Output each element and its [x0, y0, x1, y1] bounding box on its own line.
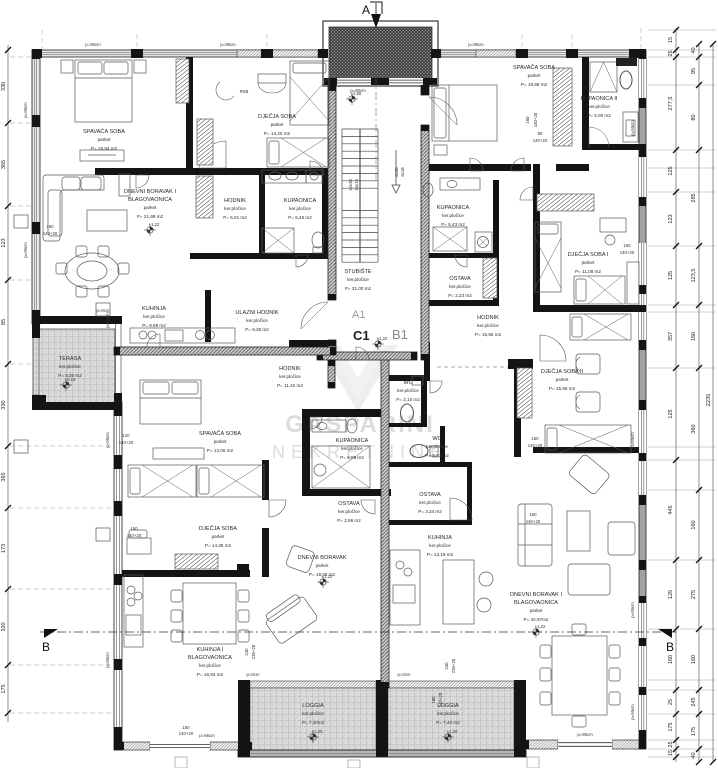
svg-text:160: 160: [130, 526, 138, 531]
coffee table A1: [87, 210, 127, 231]
svg-text:DNEVNI BORAVAK I: DNEVNI BORAVAK I: [124, 189, 176, 195]
door A1 spavaca: [136, 175, 149, 188]
svg-text:277,5: 277,5: [668, 97, 674, 111]
wall: B1 wc top wall: [389, 375, 430, 381]
svg-text:HODNIK: HODNIK: [279, 366, 301, 372]
svg-text:p=80cm: p=80cm: [350, 88, 366, 93]
svg-text:parket: parket: [144, 205, 157, 210]
svg-text:TERASA: TERASA: [59, 356, 82, 362]
svg-text:175: 175: [668, 722, 674, 731]
wall: terrace bottom wall: [33, 402, 122, 410]
bottom wall C1 lintel hatch right: [210, 742, 242, 750]
svg-text:BLAGOVAONICA: BLAGOVAONICA: [128, 197, 172, 203]
svg-text:16x18: 16x18: [354, 179, 359, 191]
svg-text:C1: C1: [353, 328, 370, 343]
shelf djecja I: [627, 262, 639, 304]
loggia 2 hatch: [388, 688, 514, 750]
hatched wall: C1 hodnik left wall upper: [328, 360, 335, 388]
wall: C1 djecja corner block: [237, 564, 249, 575]
svg-text:235+20: 235+20: [451, 658, 456, 673]
wall: C1 kupaonica left wall: [302, 409, 310, 496]
svg-text:ker.pločice: ker.pločice: [279, 374, 301, 379]
svg-text:P= 11,08 m2: P= 11,08 m2: [575, 269, 601, 274]
dimension line left side: [7, 45, 9, 722]
top wall lintel hatch segment: [237, 50, 318, 57]
svg-text:320: 320: [1, 622, 7, 631]
svg-text:330: 330: [1, 82, 7, 91]
sofa C1 rotated: [262, 591, 319, 644]
room labels: [58, 64, 618, 725]
svg-text:OSTAVA: OSTAVA: [449, 276, 471, 282]
svg-text:175: 175: [1, 684, 7, 693]
wall: wall djecja I - djecja II: [533, 305, 646, 312]
svg-text:235+20: 235+20: [251, 644, 256, 659]
svg-text:330: 330: [1, 400, 7, 409]
wall: loggia left wall: [238, 680, 250, 757]
kitchen B1 counter: [390, 550, 420, 625]
kitchen counter A1: [130, 328, 235, 343]
wall: C1 spavaca right wall: [262, 460, 269, 500]
chair A1 djecja: [216, 82, 234, 100]
wall: wall spavaca B1 - kupaonica II: [582, 57, 589, 150]
svg-text:B1: B1: [392, 327, 408, 342]
wall: bottom wall C1 corner block: [114, 742, 124, 750]
outer top wall glazing band left span: [32, 50, 324, 57]
svg-text:P= 3,34 m2: P= 3,34 m2: [418, 509, 442, 514]
top wall lintel hatch right: [476, 50, 516, 57]
door B1 ostava: [450, 498, 472, 520]
wall: wall below hodnik-kupaonica A1: [190, 253, 330, 259]
outer right wall base: [639, 50, 646, 749]
svg-text:19x30: 19x30: [348, 179, 353, 191]
washer kupII: [623, 112, 638, 142]
svg-text:p=95cm: p=95cm: [630, 602, 635, 618]
top wall piers: [32, 49, 646, 58]
sofa A1: [43, 175, 104, 241]
window vestibule left: [337, 78, 371, 85]
svg-text:B: B: [42, 640, 50, 654]
bottom wall B1 lintel hatch left: [527, 740, 558, 749]
svg-text:240: 240: [444, 662, 449, 670]
door B1 kupaonica: [455, 255, 467, 267]
door kupII: [589, 127, 609, 147]
svg-text:ker.pločice: ker.pločice: [429, 543, 451, 548]
wall: wall left of djecja II: [514, 366, 521, 457]
svg-text:P= 18,94 m2: P= 18,94 m2: [197, 672, 224, 677]
door C1 spavaca: [147, 334, 160, 347]
svg-text:160: 160: [691, 332, 697, 341]
svg-text:ker.pločice: ker.pločice: [426, 444, 448, 449]
svg-text:140+20: 140+20: [179, 731, 194, 736]
svg-text:ker.pločice: ker.pločice: [246, 318, 268, 323]
svg-text:parket: parket: [316, 563, 329, 568]
door A1 kupaonica: [296, 255, 308, 267]
svg-text:125: 125: [668, 409, 674, 418]
desk djecja I: [600, 218, 626, 232]
hatched wall: central divider wall C1-B1: [381, 352, 389, 688]
level markers: [144, 224, 156, 236]
svg-text:parket: parket: [214, 439, 227, 444]
outer left wall lower glazing band: [114, 402, 122, 750]
wall: B1 ostava top wall: [389, 462, 472, 467]
entrance canopy hatched roof: [323, 21, 438, 86]
wardrobe hatch A1 spavaca: [176, 59, 189, 103]
svg-text:LOGGIA: LOGGIA: [302, 703, 324, 709]
svg-text:25: 25: [668, 699, 674, 705]
wardrobe hatch C1 djecja: [175, 554, 218, 569]
svg-text:SPAVAČA SOBA: SPAVAČA SOBA: [513, 64, 555, 71]
single bed C1 spavaca a: [128, 465, 196, 497]
wall: B1 wc1 right wall: [421, 381, 427, 427]
svg-text:123: 123: [668, 214, 674, 223]
svg-text:KUHINJA: KUHINJA: [428, 535, 452, 541]
svg-text:80: 80: [691, 114, 697, 120]
cot C1 djecja: [127, 538, 151, 554]
right wall piers: [639, 50, 646, 749]
shower C1: [312, 446, 370, 488]
svg-text:P= 2,10 m2: P= 2,10 m2: [396, 397, 420, 402]
double bed A1 spavaca: [75, 60, 132, 122]
single bed C1 spavaca b: [197, 465, 264, 497]
svg-text:p=0cm: p=0cm: [246, 672, 259, 677]
kitchen island B1: [443, 560, 474, 624]
door C1 ostava lower: [361, 500, 375, 514]
watermark logo: [272, 345, 448, 462]
svg-text:p=0cm: p=0cm: [397, 672, 410, 677]
svg-text:P= 42,97m2: P= 42,97m2: [524, 617, 549, 622]
svg-text:BLAGOVAONICA: BLAGOVAONICA: [514, 600, 558, 606]
wall: loggia right wall: [514, 680, 526, 757]
terrace junction block: [114, 393, 122, 410]
hatched wall: stairwell right wall: [421, 125, 429, 360]
svg-text:HODNIK: HODNIK: [224, 198, 246, 204]
svg-text:+1,22: +1,22: [149, 222, 160, 227]
svg-text:A: A: [362, 3, 370, 17]
door arc B1 entry: [429, 97, 457, 125]
svg-text:85: 85: [1, 319, 7, 325]
svg-text:KUPAONICA: KUPAONICA: [336, 438, 369, 444]
washing machine A1: [306, 170, 322, 183]
door B1 hodnik: [511, 158, 524, 171]
nightstand: [434, 145, 447, 155]
wall: ulazni hodnik bottom wall piece: [289, 340, 336, 347]
svg-text:DJEČJA SOBA: DJEČJA SOBA: [199, 525, 237, 532]
svg-text:DJEČJA SOBA II: DJEČJA SOBA II: [541, 368, 584, 375]
svg-text:285: 285: [691, 193, 697, 202]
svg-text:ker.pločice: ker.pločice: [477, 323, 499, 328]
door arc A1 entry: [301, 302, 328, 329]
svg-text:360: 360: [691, 424, 697, 433]
svg-text:SPAVAĆA SOBA: SPAVAĆA SOBA: [83, 128, 125, 135]
window bottom C1 kuhinja: [150, 742, 210, 750]
chair a djecja II: [576, 354, 600, 374]
svg-text:parket: parket: [271, 122, 284, 127]
svg-text:p=95cm: p=95cm: [630, 120, 635, 136]
dimension lines right side: [648, 28, 716, 762]
svg-text:15: 15: [668, 37, 674, 43]
svg-text:KUHINJA I: KUHINJA I: [197, 647, 224, 653]
wall: C1 djecja right wall: [262, 528, 269, 577]
bed 2 djecja II: [570, 314, 631, 340]
svg-text:ker.pločice: ker.pločice: [442, 213, 464, 218]
door A1 dnevni: [310, 161, 324, 175]
terrace hatch: [33, 329, 115, 403]
wall: wall between spavaca and djecja A1: [186, 57, 193, 170]
svg-text:ker.pločice: ker.pločice: [437, 711, 459, 716]
dining table A1: [56, 246, 129, 297]
bench C1: [153, 448, 204, 459]
svg-text:ker.pločice: ker.pločice: [341, 446, 363, 451]
loggia 2 lintel: [388, 681, 514, 688]
toilet kupB1: [423, 183, 433, 197]
svg-text:160: 160: [525, 116, 530, 124]
svg-text:180: 180: [431, 696, 436, 704]
svg-text:ker.pločice: ker.pločice: [419, 500, 441, 505]
window bottom B1 dnevni: [558, 740, 612, 749]
svg-text:P= 2,96 m2: P= 2,96 m2: [337, 518, 361, 523]
wall: djecja II lower wall: [533, 447, 639, 453]
svg-text:p=95cm: p=95cm: [630, 432, 635, 448]
svg-text:p=95cm: p=95cm: [577, 732, 593, 737]
svg-text:160: 160: [691, 655, 697, 664]
svg-text:p=95cm: p=95cm: [105, 312, 110, 328]
svg-text:15: 15: [668, 750, 674, 756]
svg-text:ULAZNI HODNIK: ULAZNI HODNIK: [235, 310, 278, 316]
svg-text:+1,20: +1,20: [447, 729, 458, 734]
toilet kupII: [620, 71, 632, 89]
svg-text:P= 15,55 m2: P= 15,55 m2: [549, 386, 576, 391]
svg-text:140+20: 140+20: [533, 138, 548, 143]
svg-text:125: 125: [668, 271, 674, 280]
svg-text:365: 365: [1, 160, 7, 169]
wall: wall below spavaca B1 right part: [556, 164, 589, 171]
svg-text:160: 160: [46, 224, 54, 229]
svg-text:OSTAVA: OSTAVA: [338, 501, 360, 507]
nightstand: [134, 60, 146, 73]
wall: wall below spavaca B1: [421, 164, 531, 171]
left wall piers: [32, 50, 40, 324]
svg-text:parket: parket: [212, 534, 225, 539]
right wall glazing windows: [639, 59, 646, 730]
double bed C1 spavaca: [140, 380, 201, 424]
outer left wall glazing band: [32, 50, 40, 324]
svg-text:P= 7,40 m2: P= 7,40 m2: [436, 720, 460, 725]
svg-text:RSB: RSB: [240, 89, 249, 94]
double bed B1 spavaca: [432, 85, 497, 141]
desk A1 djecja: [258, 74, 286, 83]
stair arrow: [392, 150, 400, 193]
svg-text:140+20: 140+20: [533, 112, 538, 127]
svg-text:parket: parket: [530, 608, 543, 613]
wall: B1 wc left wall: [424, 342, 430, 377]
svg-text:173: 173: [1, 544, 7, 553]
svg-text:445: 445: [668, 505, 674, 514]
washer kupB1: [475, 232, 492, 252]
open boundary dashed: [437, 366, 508, 368]
tv rect A1: [119, 174, 130, 196]
svg-text:A1: A1: [352, 309, 365, 321]
svg-text:160: 160: [531, 436, 539, 441]
vanity C1: [312, 420, 346, 432]
svg-text:P= 11,42 m2: P= 11,42 m2: [277, 383, 303, 388]
vanity kupB1: [440, 178, 480, 190]
svg-text:80: 80: [538, 131, 543, 136]
svg-text:40: 40: [691, 47, 697, 53]
vanity kupII: [616, 58, 637, 66]
svg-text:+1,22: +1,22: [322, 574, 333, 579]
door C1 djecja: [269, 500, 286, 517]
svg-text:P= 5,00 m2: P= 5,00 m2: [587, 113, 611, 118]
wall: kupaonica A1 right wall: [322, 175, 328, 255]
wall: C1 kupaonica bottom wall: [302, 489, 391, 496]
svg-text:P= 5,01 m2: P= 5,01 m2: [223, 215, 247, 220]
svg-text:123,5: 123,5: [691, 269, 697, 283]
wall: C1 djecja bottom wall: [122, 570, 250, 577]
loggia 1 hatch: [250, 688, 376, 750]
wall: bottom wall B1 left block: [517, 740, 529, 749]
chair b djecja II: [576, 392, 600, 412]
svg-text:KUPAONICA: KUPAONICA: [284, 198, 317, 204]
hatched wall: wall A1-C1 divide: [114, 347, 336, 355]
svg-text:p=95cm: p=95cm: [220, 42, 236, 47]
svg-text:40: 40: [691, 752, 697, 758]
svg-text:KUPAONICA II: KUPAONICA II: [581, 96, 618, 102]
svg-text:p=95cm: p=95cm: [23, 102, 28, 118]
shower A1: [262, 228, 294, 253]
svg-text:ker.pločice: ker.pločice: [302, 711, 324, 716]
svg-text:365: 365: [1, 472, 7, 481]
svg-text:p=95cm: p=95cm: [105, 652, 110, 668]
door B1 spavaca: [470, 158, 483, 171]
door B1 djecja II: [540, 335, 566, 361]
svg-text:P= 18,84 m2: P= 18,84 m2: [91, 146, 118, 151]
dining table C1: [171, 583, 249, 644]
svg-text:25: 25: [668, 741, 674, 747]
svg-text:2235: 2235: [706, 394, 712, 406]
stairwell treads: [342, 129, 378, 262]
svg-text:140+20: 140+20: [43, 231, 58, 236]
svg-text:ker.pločice: ker.pločice: [224, 206, 246, 211]
bed 1 djecja I: [535, 222, 561, 292]
wall: wall below bedrooms A1: [95, 168, 330, 175]
window vestibule right: [389, 78, 423, 85]
bed 2 A1 djecja: [267, 138, 329, 167]
wall: ulazni hodnik left wall A1: [205, 290, 211, 342]
door B1 wc: [430, 381, 442, 393]
svg-text:P= 18,89 m2: P= 18,89 m2: [521, 82, 548, 87]
svg-text:140+20: 140+20: [119, 440, 134, 445]
svg-text:parket: parket: [98, 137, 111, 142]
svg-text:123: 123: [1, 238, 7, 247]
svg-text:125: 125: [668, 166, 674, 175]
svg-text:240: 240: [244, 648, 249, 656]
svg-text:8x30: 8x30: [394, 167, 399, 177]
svg-text:180: 180: [182, 725, 190, 730]
svg-text:160: 160: [668, 655, 674, 664]
svg-text:p=95cm: p=95cm: [468, 42, 484, 47]
wall: wall kupaonica-ostava B1 right: [493, 180, 499, 306]
hatched wall: stairwell right wall top block: [421, 85, 429, 95]
terrace right parapet thin: [116, 324, 122, 402]
wardrobe hatch B1 spavaca: [553, 68, 572, 146]
wall: B1 wc2 right wall: [440, 426, 445, 462]
door C1 hodnik: [356, 347, 369, 360]
svg-text:P= 14,35 m2: P= 14,35 m2: [205, 543, 232, 548]
svg-text:P= 14,20 m2: P= 14,20 m2: [264, 131, 291, 136]
hatched wall: stairwell left wall lower block: [328, 340, 336, 360]
coffee table B1: [567, 511, 590, 551]
door A1 djecja big: [199, 141, 226, 168]
svg-text:+1,20: +1,20: [312, 729, 323, 734]
section B line: [40, 631, 676, 633]
svg-text:P= 5,43 m2: P= 5,43 m2: [441, 222, 465, 227]
svg-text:p=95cm: p=95cm: [105, 432, 110, 448]
wall: bottom wall C1 right block: [240, 742, 252, 750]
svg-text:P= 21,68 m2: P= 21,68 m2: [137, 214, 164, 219]
svg-text:140+20: 140+20: [127, 533, 142, 538]
svg-text:160: 160: [623, 243, 631, 248]
wc2 toilet B1: [410, 445, 428, 458]
toilet A1: [312, 232, 324, 248]
wall: corridor end cap block: [508, 359, 533, 369]
wall: wall below canopy: [324, 78, 437, 85]
svg-text:SPAVAČA SOBA: SPAVAČA SOBA: [199, 430, 241, 437]
svg-text:DNEVNI BORAVAK: DNEVNI BORAVAK: [298, 555, 347, 561]
shower kupII: [590, 62, 617, 92]
svg-text:WC: WC: [403, 380, 412, 386]
wall: loggia middle wall: [376, 680, 388, 757]
svg-text:357: 357: [668, 332, 674, 341]
svg-text:p=95cm: p=95cm: [630, 704, 635, 720]
svg-text:140+20: 140+20: [528, 443, 543, 448]
svg-text:+1,22: +1,22: [377, 336, 388, 341]
svg-text:ker.pločice: ker.pločice: [347, 277, 369, 282]
wall: ostava B1 bottom wall: [421, 300, 499, 306]
svg-text:160: 160: [529, 512, 537, 517]
wall: kupaonica II bottom wall: [582, 144, 646, 150]
door C1 kupaonica: [310, 417, 322, 429]
boiler C1: [314, 464, 326, 476]
loggia 1 lintel: [250, 681, 376, 688]
dining table B1: [540, 624, 620, 727]
svg-text:p=0cm: p=0cm: [96, 308, 109, 313]
svg-text:P= 2,23 m2: P= 2,23 m2: [448, 293, 472, 298]
svg-text:245: 245: [691, 697, 697, 706]
svg-text:BLAGOVAONICA: BLAGOVAONICA: [188, 655, 232, 661]
sofa B1 horizontal: [568, 564, 610, 595]
door djecja I: [520, 187, 533, 200]
wall: B1 ostava right wall: [467, 462, 472, 525]
svg-text:DJEČJA SOBA I: DJEČJA SOBA I: [568, 251, 609, 258]
svg-text:WC: WC: [432, 436, 441, 442]
svg-text:parket: parket: [582, 260, 595, 265]
svg-text:P= 7,40m2: P= 7,40m2: [302, 720, 325, 725]
svg-text:ker.pločice: ker.pločice: [59, 364, 81, 369]
wall: wall kupaonica-ostava B1 divide: [421, 253, 493, 258]
svg-text:ker.pločice: ker.pločice: [449, 284, 471, 289]
armchair B1 rotated: [568, 453, 611, 495]
svg-text:95: 95: [691, 68, 697, 74]
wall: wall hodnik-kupaonica A1: [259, 175, 265, 255]
svg-text:+1,22: +1,22: [535, 624, 546, 629]
wc toilet B1: [401, 404, 414, 422]
bed 1 djecja II: [545, 425, 631, 453]
terrace left parapet thin: [33, 330, 39, 395]
svg-text:KUPAONICA: KUPAONICA: [437, 205, 470, 211]
svg-text:140+20: 140+20: [526, 519, 541, 524]
svg-text:6x18: 6x18: [400, 167, 405, 177]
svg-text:P= 16,55 m2: P= 16,55 m2: [475, 332, 502, 337]
